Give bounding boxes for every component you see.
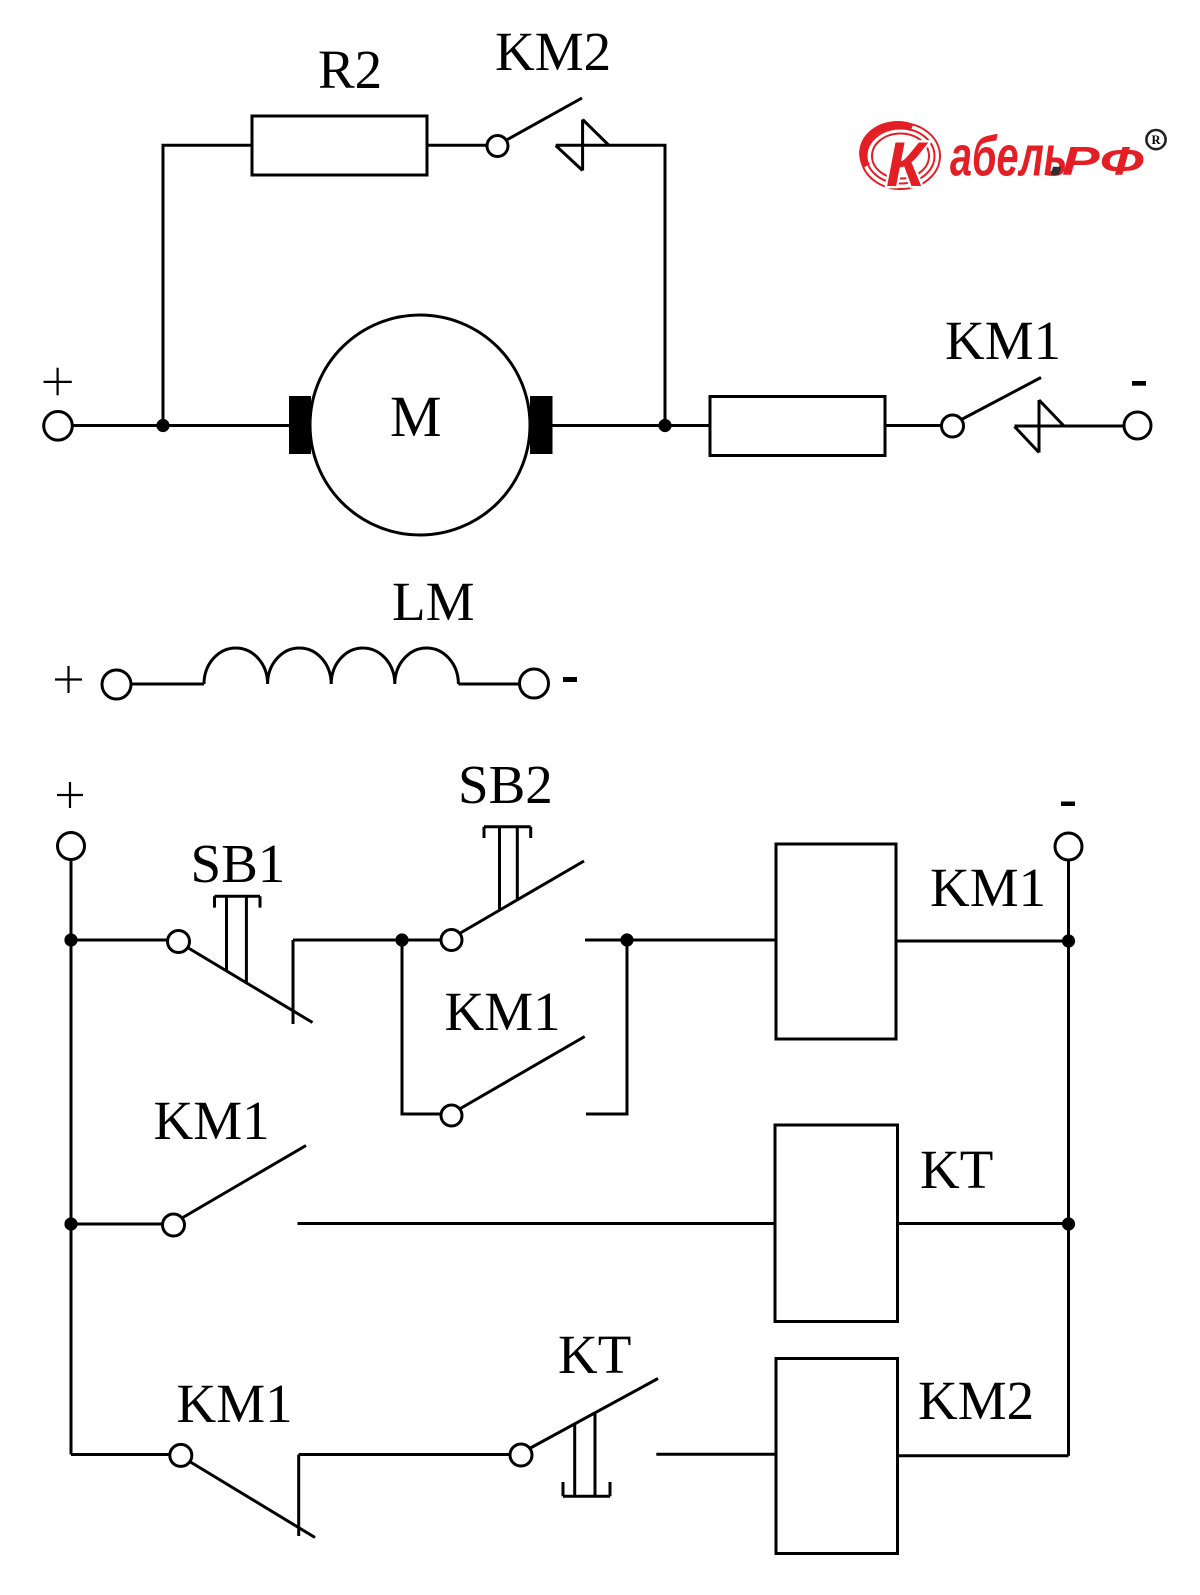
svg-text:KT: KT [558,1324,631,1385]
svg-text:KM1: KM1 [445,981,561,1042]
svg-text:SB1: SB1 [191,833,286,894]
svg-text:К: К [886,130,929,200]
svg-text:абель: абель [950,125,1067,188]
svg-text:РФ: РФ [1062,139,1144,183]
svg-text:KT: KT [920,1139,993,1200]
svg-text:SB2: SB2 [458,754,553,815]
svg-text:LM: LM [392,571,475,632]
svg-text:KM2: KM2 [495,21,611,82]
svg-text:KM1: KM1 [945,310,1061,371]
svg-text:KM2: KM2 [918,1370,1034,1431]
svg-text:KM1: KM1 [930,857,1046,918]
svg-text:M: M [390,384,442,449]
svg-text:KM1: KM1 [154,1090,270,1151]
svg-text:KM1: KM1 [177,1373,293,1434]
svg-text:R: R [1152,133,1162,147]
svg-text:R2: R2 [318,39,382,100]
